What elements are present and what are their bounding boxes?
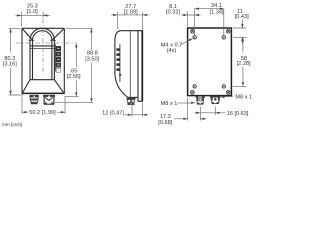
front right connector (socket) (43, 95, 55, 104)
svg-text:[1.09]: [1.09] (124, 9, 138, 15)
front bottom-left taper diagonal (23, 80, 30, 93)
M4 hole bottom-left (193, 85, 196, 88)
label M8 x 1 right with leader (220, 94, 252, 100)
front left connector (threaded gland) (30, 95, 39, 104)
svg-text:mm [inch]: mm [inch] (2, 122, 22, 127)
dimension 17.3 [0.68] (158, 98, 206, 127)
svg-text:[3.50]: [3.50] (85, 57, 99, 63)
side bottom edge (127, 96, 138, 98)
svg-text:[0.43]: [0.43] (235, 14, 249, 20)
side top edge (120, 30, 143, 32)
label M8 x 1 left with leader (161, 101, 196, 107)
svg-text:12 [0.47]: 12 [0.47] (102, 110, 124, 116)
svg-text:[0.68]: [0.68] (158, 120, 172, 126)
svg-text:[0.32]: [0.32] (166, 9, 180, 15)
window inner top line (30, 47, 54, 49)
side dome bulge profile (115, 31, 120, 40)
corner screw bottom-left (191, 91, 195, 95)
side seam line (129, 31, 131, 97)
front body outline (22, 27, 64, 29)
M4 hole top-right (222, 36, 225, 39)
window frame top line (30, 45, 54, 47)
svg-text:M8 x 1: M8 x 1 (235, 94, 252, 100)
dimension 50.2 [1.99] bottom of front view (22, 97, 65, 117)
button 1 (56, 46, 61, 50)
rear right connector (socket) (210, 96, 221, 104)
rear plate outline (188, 28, 232, 96)
M4 hole top-left (193, 36, 196, 39)
button 2 (56, 52, 61, 56)
side bottom connector (127, 98, 136, 105)
dimension 34.1 [1.34] (195, 3, 224, 36)
M4 hole bottom-right (222, 85, 225, 88)
button panel line (54, 44, 56, 71)
indicator window below buttons (56, 68, 60, 72)
svg-text:[3.16]: [3.16] (3, 61, 17, 67)
front top-left chamfer diagonal (22, 29, 32, 40)
dimension 58 [2.28] (233, 37, 252, 86)
dimension 65 [2.56] inner right of front view (64, 43, 81, 96)
side rear plate inner edge (138, 31, 143, 102)
dome outer arc (30, 28, 54, 40)
svg-text:[1.0]: [1.0] (27, 9, 38, 15)
front body bottom thick edge (22, 93, 65, 95)
dimension 80.3 [3.16] left of front view (3, 28, 24, 95)
front horizontal centerline (optical axis) (16, 42, 78, 44)
button 3 (56, 57, 61, 61)
corner screw top-right (226, 29, 230, 33)
dome inner arc (33, 31, 52, 41)
label M4 x 0.7 (4x) with leader (161, 38, 193, 54)
dimension 25.3 [1.0] top of front view (16, 4, 51, 27)
side rear plate outer edge (141, 31, 143, 102)
dimension 27.7 [1.09] top of side view (111, 4, 150, 29)
dimension 8.1 [0.32] (166, 4, 201, 36)
dimension 11 [0.43] (233, 9, 249, 44)
window outer side lines (30, 40, 54, 79)
window inner side lines (33, 40, 52, 79)
window bottom line (30, 79, 55, 81)
button 4 (56, 63, 61, 67)
front vertical centerline (42, 19, 44, 78)
svg-text:[2.56]: [2.56] (67, 74, 81, 80)
svg-text:[2.28]: [2.28] (237, 61, 251, 67)
side front profile line (114, 40, 116, 75)
corner screw bottom-right (226, 91, 230, 95)
front bottom-right taper diagonal (55, 80, 64, 93)
rear left connector (socket) (196, 96, 205, 104)
corner screw top-left (191, 29, 195, 33)
side buttons (5 bars) (116, 48, 120, 51)
dimension 12 [0.47] bottom of side view (102, 99, 148, 117)
dimension 16 [0.63] (194, 107, 249, 118)
dome tangent ticks (29, 40, 56, 42)
svg-text:(4x): (4x) (167, 48, 177, 54)
side bottom curve (115, 74, 128, 97)
side face nub (119, 74, 121, 76)
svg-text:M8 x 1: M8 x 1 (161, 101, 178, 107)
svg-text:[1.34]: [1.34] (210, 9, 224, 15)
side inner face line (119, 44, 121, 82)
svg-text:50.2 [1.99]: 50.2 [1.99] (29, 110, 56, 116)
dimension 88.8 [3.50] right of front view (55, 28, 100, 102)
svg-text:16 [0.63]: 16 [0.63] (227, 111, 249, 117)
front top-right chamfer diagonal (52, 29, 64, 40)
